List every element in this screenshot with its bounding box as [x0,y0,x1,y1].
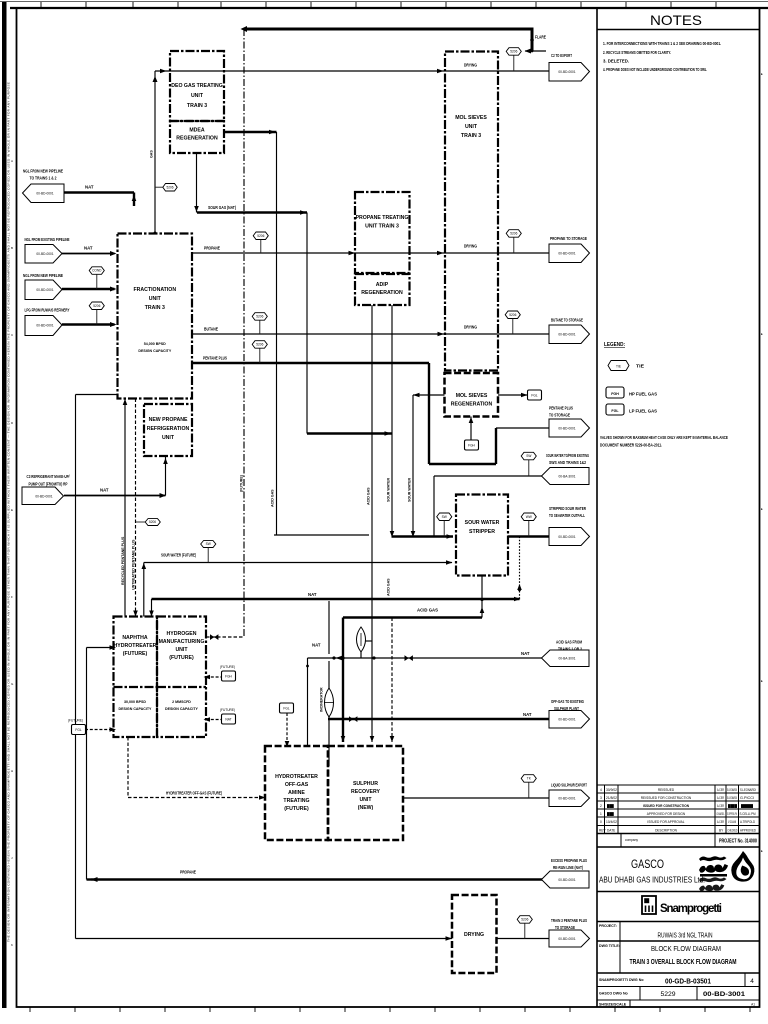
svg-text:GAS: GAS [150,150,154,158]
svg-text:Snamprogetti: Snamprogetti [660,903,722,915]
svg-text:00-BD-0001: 00-BD-0001 [558,333,575,337]
svg-text:00-BD-0001: 00-BD-0001 [558,427,575,431]
svg-text:LIQUID SULPHUR EXPORT: LIQUID SULPHUR EXPORT [551,783,587,788]
svg-text:00-BD-0001: 00-BD-0001 [558,937,575,941]
svg-text:4: 4 [600,788,602,792]
svg-text:DESIGN CAPACITY: DESIGN CAPACITY [165,707,198,711]
svg-text:FGL: FGL [75,728,81,732]
svg-text:ACID GAS: ACID GAS [387,578,391,596]
svg-text:3: 3 [600,796,602,800]
svg-text:STRIPPED SOUR WATER: STRIPPED SOUR WATER [549,506,587,511]
svg-text:A.CER: A.CER [717,788,724,792]
svg-text:(FUTURE): (FUTURE) [284,806,309,812]
svg-text:A.CER: A.CER [717,804,724,808]
svg-text:ISSUED FOR CONSTRUCTION: ISSUED FOR CONSTRUCTION [643,804,690,808]
svg-text:S.OPPERL.PM: S.OPPERL.PM [727,812,737,816]
svg-text:DESIGN CAPACITY: DESIGN CAPACITY [119,707,152,711]
svg-text:REGENERATION: REGENERATION [451,402,493,408]
svg-text:UNIT: UNIT [359,797,372,803]
svg-text:AMINE: AMINE [288,790,305,796]
svg-text:SOUR WATER (FUTURE): SOUR WATER (FUTURE) [161,553,196,558]
svg-text:5206: 5206 [149,520,156,524]
svg-text:E: E [11,508,13,512]
svg-text:STRIPPER: STRIPPER [469,529,495,535]
svg-text:5206: 5206 [521,918,528,922]
svg-text:PUMP OUT (FROM/TO) RP: PUMP OUT (FROM/TO) RP [29,482,68,487]
svg-text:TIE: TIE [636,364,644,369]
svg-text:TREATING: TREATING [283,798,309,804]
svg-text:DATE: DATE [607,829,615,833]
svg-text:A.CER: A.CER [717,820,724,824]
svg-text:NGL FROM EXISTING PIPELINE: NGL FROM EXISTING PIPELINE [25,237,70,242]
svg-text:INCINERATOR: INCINERATOR [320,687,324,712]
svg-text:NAT: NAT [85,185,94,190]
svg-text:4. PROPANE DOES NOT INCLUDE UN: 4. PROPANE DOES NOT INCLUDE UNDERGROUND … [603,67,707,72]
svg-text:████: ████ [741,804,754,808]
svg-text:30,000 BPSD: 30,000 BPSD [124,700,146,704]
svg-text:B: B [11,246,13,250]
svg-text:TO STORAGE: TO STORAGE [549,413,570,418]
svg-text:3. DELETED.: 3. DELETED. [603,59,629,64]
svg-text:G.MASEL: G.MASEL [717,812,725,816]
svg-text:ACID GAS: ACID GAS [417,608,438,613]
svg-text:MOL SIEVES: MOL SIEVES [455,115,487,121]
svg-text:A1: A1 [751,1003,755,1007]
svg-text:MANUFACTURING: MANUFACTURING [159,639,205,645]
svg-text:5206: 5206 [510,232,517,236]
svg-text:TRAINS 1 OR 2: TRAINS 1 OR 2 [558,647,582,652]
svg-text:REFRIGERATION: REFRIGERATION [147,426,190,432]
svg-text:PENTANE PLUS: PENTANE PLUS [203,356,227,361]
svg-text:LEGEND:: LEGEND: [604,342,625,348]
svg-text:DESCRIPTION: DESCRIPTION [655,829,677,833]
svg-text:NOTES: NOTES [650,12,702,28]
svg-text:TO TRAINS 1 & 2: TO TRAINS 1 & 2 [30,176,57,181]
svg-text:(FUTURE): (FUTURE) [68,719,83,723]
svg-text:2 MMSCFD: 2 MMSCFD [172,700,191,704]
svg-text:SW: SW [442,515,447,519]
svg-text:1: 1 [600,812,602,816]
svg-text:A: A [11,159,13,163]
svg-text:00-BD-0001: 00-BD-0001 [36,252,53,256]
svg-text:UNIT: UNIT [175,647,188,653]
svg-text:UNIT: UNIT [149,296,162,302]
svg-text:UNIT: UNIT [465,124,478,130]
svg-text:TRAIN 3: TRAIN 3 [461,133,481,139]
svg-text:NAT: NAT [523,712,532,717]
svg-text:00-BD-0001: 00-BD-0001 [558,797,575,801]
svg-text:DRYING: DRYING [464,244,478,249]
svg-text:(FUTURE): (FUTURE) [220,665,235,669]
svg-text:ADIP: ADIP [376,282,389,288]
svg-text:00-BD-0001: 00-BD-0001 [35,495,52,499]
svg-text:ISSUED FOR APPROVAL: ISSUED FOR APPROVAL [647,820,684,824]
svg-text:███: ███ [607,812,615,816]
svg-text:S.LEONARDI: S.LEONARDI [740,788,756,792]
svg-text:NAPHTHA: NAPHTHA [122,635,148,641]
svg-text:DEO GAS TREATING: DEO GAS TREATING [171,83,223,89]
svg-text:5206: 5206 [257,234,264,238]
svg-text:HYDROGEN: HYDROGEN [167,631,197,637]
svg-text:TO STORAGE: TO STORAGE [555,925,575,930]
svg-text:►: ► [761,72,764,76]
svg-text:RECOVERY: RECOVERY [351,789,380,795]
svg-text:00-BD-0001: 00-BD-0001 [36,192,53,196]
svg-text:PROPANE: PROPANE [180,870,196,875]
svg-text:RECYCLED PENTANE PLUS: RECYCLED PENTANE PLUS [121,536,125,585]
svg-text:SW: SW [526,454,531,458]
svg-text:BUTANE: BUTANE [204,327,218,332]
svg-text:OFF-GAS: OFF-GAS [285,782,309,788]
svg-text:SOUR GAS (NAT): SOUR GAS (NAT) [208,205,236,210]
svg-text:FRACTIONATION: FRACTIONATION [134,287,177,293]
svg-text:REISSUED FOR CONSTRUCTION: REISSUED FOR CONSTRUCTION [641,796,692,800]
svg-text:TIE: TIE [616,364,621,368]
svg-text:NAT: NAT [225,718,231,722]
svg-text:NAT: NAT [308,592,317,597]
svg-text:NAT: NAT [521,651,530,656]
svg-text:►: ► [761,679,764,683]
svg-text:S.LEONARDI: S.LEONARDI [727,796,737,800]
svg-text:WW: WW [526,515,532,519]
svg-text:S.LEONARDI: S.LEONARDI [727,788,737,792]
svg-text:DESIGN CAPACITY: DESIGN CAPACITY [138,349,171,353]
svg-text:███: ███ [607,804,615,808]
svg-text:00-BD-3001: 00-BD-3001 [703,991,745,998]
svg-text:PROPANE TREATING: PROPANE TREATING [356,215,409,221]
svg-text:5229: 5229 [660,991,675,998]
svg-text:4: 4 [750,978,754,985]
svg-text:5206: 5206 [256,315,263,319]
svg-text:RE-RUN LINE (NAT): RE-RUN LINE (NAT) [553,865,583,870]
svg-text:PROJECT No. 314000: PROJECT No. 314000 [719,839,757,845]
svg-text:5206: 5206 [256,343,263,347]
svg-text:REISSUED: REISSUED [658,788,675,792]
svg-text:UNTREATED PENTANE PLUS: UNTREATED PENTANE PLUS [132,539,136,590]
svg-text:(FUTURE): (FUTURE) [240,474,244,492]
svg-text:NAT: NAT [100,488,109,493]
svg-text:HYDROTREATER: HYDROTREATER [114,643,157,649]
svg-text:00-BD-0001: 00-BD-0001 [558,70,575,74]
svg-text:C2 TO EXPORT: C2 TO EXPORT [551,53,572,58]
svg-text:TRAIN 3 OVERALL BLOCK FLOW DIA: TRAIN 3 OVERALL BLOCK FLOW DIAGRAM [630,957,737,966]
svg-text:00-BD-0001: 00-BD-0001 [558,718,575,722]
svg-text:A.TRIPOLD: A.TRIPOLD [740,820,756,824]
svg-text:5206: 5206 [509,313,516,317]
svg-text:00-BA-3001: 00-BA-3001 [558,657,575,661]
svg-text:00-GD-B-03501: 00-GD-B-03501 [665,977,711,986]
svg-text:(FUTURE): (FUTURE) [169,655,194,661]
svg-text:00-BD-0001: 00-BD-0001 [558,252,575,256]
svg-text:ACID GAS: ACID GAS [367,487,371,505]
svg-text:C3 REFRIGERANT MAKE-UP/: C3 REFRIGERANT MAKE-UP/ [27,474,71,479]
svg-text:MOL SIEVES: MOL SIEVES [456,393,488,399]
svg-text:SOUR WATER: SOUR WATER [387,478,391,502]
svg-text:THE DESIGN OR INFORMATION CONT: THE DESIGN OR INFORMATION CONTAINED HERE… [7,82,11,942]
svg-text:TRAIN 3: TRAIN 3 [145,305,165,311]
svg-text:HYDROTREATER OFF-GAS (FUTURE): HYDROTREATER OFF-GAS (FUTURE) [166,791,222,796]
svg-text:BUTANE TO STORAGE: BUTANE TO STORAGE [551,318,583,323]
svg-text:10/4/02: 10/4/02 [606,820,617,824]
svg-text:F: F [11,595,13,599]
svg-text:REGENERATION: REGENERATION [176,136,218,142]
svg-text:00-BD-0001: 00-BD-0001 [36,288,53,292]
svg-text:PROJECT:: PROJECT: [599,924,617,928]
svg-text:EXCESS PROPANE PLUS: EXCESS PROPANE PLUS [551,858,587,863]
svg-text:5206: 5206 [93,304,100,308]
svg-text:REV: REV [599,829,606,833]
svg-text:UNIT: UNIT [191,93,204,99]
svg-text:G.PICCI: G.PICCI [740,796,754,800]
svg-text:TO SEAWATER OUTFALL: TO SEAWATER OUTFALL [549,513,585,518]
svg-text:REGENERATION: REGENERATION [361,290,403,296]
svg-text:(NEW): (NEW) [358,805,374,811]
svg-text:SULPHUR PLANT: SULPHUR PLANT [554,706,579,711]
svg-text:00-BA-3001: 00-BA-3001 [558,475,575,479]
svg-text:LP FUEL GAS: LP FUEL GAS [629,409,657,414]
svg-text:GASCO: GASCO [631,859,664,871]
svg-text:DRYING: DRYING [464,63,478,68]
svg-text:FGH: FGH [611,392,619,396]
svg-text:PROPANE: PROPANE [204,246,220,251]
svg-text:PROPANE TO STORAGE: PROPANE TO STORAGE [550,236,587,241]
svg-text:H: H [11,769,13,773]
svg-text:(FUTURE): (FUTURE) [220,708,235,712]
svg-text:UNIT TRAIN 3: UNIT TRAIN 3 [365,224,399,230]
svg-text:TRAIN 3 PENTANE PLUS: TRAIN 3 PENTANE PLUS [551,918,587,923]
svg-text:OFF-GAS TO EXISTING: OFF-GAS TO EXISTING [551,699,584,704]
svg-text:ABU DHABI GAS INDUSTRIES Ltd.: ABU DHABI GAS INDUSTRIES Ltd. [599,876,705,885]
svg-text:SULPHUR: SULPHUR [353,781,378,787]
svg-text:DWG TITLE:: DWG TITLE: [599,944,620,948]
svg-text:54,000 BPSD: 54,000 BPSD [144,342,166,346]
svg-text:HYDROTREATER: HYDROTREATER [275,774,318,780]
svg-text:00-BD-0001: 00-BD-0001 [558,878,575,882]
svg-text:APPROVED: APPROVED [740,829,757,833]
svg-text:(FUTURE): (FUTURE) [123,651,148,657]
svg-text:NAT: NAT [84,246,93,251]
svg-text:SWS AND TRAINS 1&2: SWS AND TRAINS 1&2 [549,460,586,465]
svg-text:00-BD-0001: 00-BD-0001 [36,324,53,328]
svg-text:GASCO DWG No: GASCO DWG No [599,992,629,996]
svg-text:5206: 5206 [166,185,173,189]
svg-text:RUWAIS 3rd NGL TRAIN: RUWAIS 3rd NGL TRAIN [658,931,713,940]
svg-text:FGL: FGL [531,394,537,398]
svg-text:SOUR WATER: SOUR WATER [408,478,412,502]
svg-text:DOCUMENT NUMBER 5229-00-BA-20: DOCUMENT NUMBER 5229-00-BA-2011. [600,443,662,448]
svg-text:DRYING: DRYING [464,932,484,938]
svg-text:V.CIANI: V.CIANI [728,820,736,824]
svg-text:████: ████ [728,804,738,808]
svg-text:VALVES SHOWN FOR MAXIMUM HEAT: VALVES SHOWN FOR MAXIMUM HEAT CASE ONLY … [600,435,728,440]
svg-text:MDEA: MDEA [189,128,205,134]
svg-text:UNIT: UNIT [162,435,175,441]
svg-text:SNAMPROGETTI DWG No: SNAMPROGETTI DWG No [599,978,644,982]
svg-text:FGH: FGH [468,444,475,448]
svg-text:SH/SIZE/SCALE: SH/SIZE/SCALE [599,1003,627,1007]
svg-text:5206: 5206 [510,50,517,54]
svg-text:NGL FROM NEW PIPELINE: NGL FROM NEW PIPELINE [23,169,63,174]
svg-text:CHECKED: CHECKED [728,829,738,833]
svg-text:SOUR WATER: SOUR WATER [465,520,500,526]
svg-text:SOUR WATER TO/FROM EXISTING: SOUR WATER TO/FROM EXISTING [546,453,589,458]
svg-text:DRYING: DRYING [464,325,478,330]
svg-text:APPROVED FOR DESIGN: APPROVED FOR DESIGN [647,812,686,816]
svg-text:2: 2 [600,804,602,808]
svg-text:NEW PROPANE: NEW PROPANE [149,417,188,423]
svg-text:S.CELLI.PM: S.CELLI.PM [740,812,756,816]
svg-text:NGL FROM NEW PIPELINE: NGL FROM NEW PIPELINE [23,273,63,278]
svg-text:ACID GAS: ACID GAS [271,489,275,507]
svg-text:►: ► [761,849,764,853]
svg-text:►: ► [761,507,764,511]
svg-text:FGH: FGH [225,675,232,679]
svg-text:SW: SW [206,542,211,546]
svg-text:►: ► [761,332,764,336]
svg-text:K: K [11,943,13,947]
svg-text:FLARE: FLARE [535,35,546,40]
svg-text:NAT: NAT [312,643,321,648]
svg-text:TRAIN 3: TRAIN 3 [187,103,207,109]
svg-text:FGL: FGL [611,409,619,413]
svg-text:2. RECYCLE STREAMS OMITTED FOR: 2. RECYCLE STREAMS OMITTED FOR CLARITY. [603,50,671,55]
svg-text:30/9/02: 30/9/02 [606,788,617,792]
svg-text:PENTANE PLUS: PENTANE PLUS [549,406,573,411]
svg-text:A.CER: A.CER [717,796,724,800]
svg-text:company: company [625,838,638,842]
svg-text:LPG FROM RUWAIS REFINERY: LPG FROM RUWAIS REFINERY [25,308,70,313]
svg-text:ACID GAS FROM: ACID GAS FROM [556,640,582,645]
svg-text:00-BD-0001: 00-BD-0001 [558,535,575,539]
svg-text:0: 0 [600,820,602,824]
svg-text:HP FUEL GAS: HP FUEL GAS [629,392,657,397]
svg-text:BLOCK FLOW DIAGRAM: BLOCK FLOW DIAGRAM [651,944,721,953]
svg-text:1. FOR INTERCONNECTIONS WITH T: 1. FOR INTERCONNECTIONS WITH TRAINS 1 & … [603,41,721,46]
svg-text:FGL: FGL [283,707,289,711]
svg-text:COND: COND [92,269,102,273]
svg-text:21/8/02: 21/8/02 [606,796,617,800]
